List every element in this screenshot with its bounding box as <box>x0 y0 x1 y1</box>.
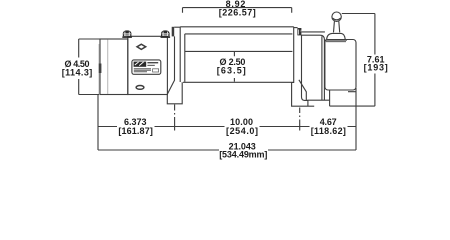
svg-text:[254.0]: [254.0] <box>226 126 258 136</box>
svg-text:[114.3]: [114.3] <box>62 68 93 78</box>
svg-text:[161.87]: [161.87] <box>118 126 153 136</box>
svg-text:[193]: [193] <box>364 62 388 72</box>
svg-text:[63.5]: [63.5] <box>217 66 246 76</box>
svg-text:[226.57]: [226.57] <box>219 8 256 18</box>
svg-text:[118.62]: [118.62] <box>311 126 346 136</box>
svg-text:[534.49mm]: [534.49mm] <box>219 149 267 159</box>
